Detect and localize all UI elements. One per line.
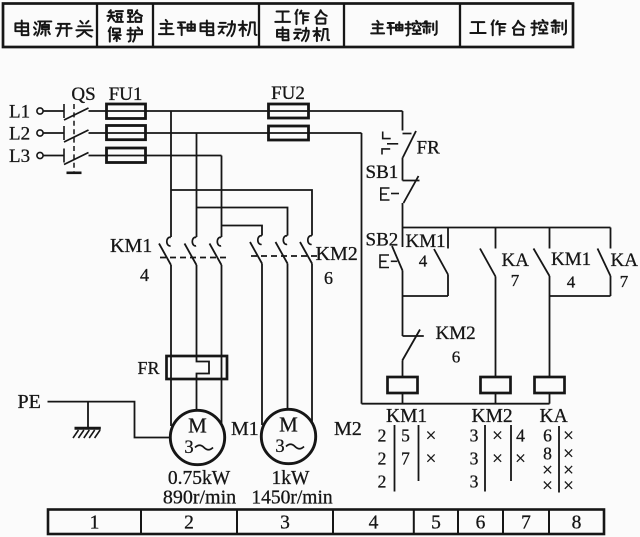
wire phase W drop [221, 156, 223, 238]
KA table column 2 [563, 426, 574, 497]
svg-text:×: × [426, 449, 437, 470]
wire rail to KA contact [495, 228, 497, 249]
svg-text:8: 8 [572, 513, 582, 534]
wire SB2 down [402, 271, 404, 337]
svg-text:M: M [279, 413, 298, 437]
svg-text:2: 2 [184, 513, 194, 534]
wire branch V to KM2 pole 2 [197, 208, 288, 236]
svg-text:2: 2 [378, 449, 387, 469]
header label: spindle motor (zhu-zhou-dian-dong-ji) [159, 20, 257, 36]
svg-text:FU2: FU2 [271, 83, 305, 104]
zone strip divider 6 [502, 510, 504, 535]
contactor KM2 main contact 2 [283, 236, 287, 245]
wire KM1 pole3 to motor M1 [221, 265, 223, 426]
svg-text:7: 7 [620, 272, 629, 291]
svg-text:6: 6 [476, 513, 486, 534]
wire rail to KM1 contact [549, 228, 551, 249]
header divider 1 [96, 4, 98, 48]
KM2 table column 1 [470, 426, 479, 492]
wire KM1 pole2 to motor M1 (through FR heater jog) [197, 265, 210, 410]
svg-text:×: × [542, 476, 553, 497]
svg-text:FR: FR [417, 138, 441, 159]
wire KM2 coil to bottom rail [495, 393, 497, 404]
zone strip divider 4 [413, 510, 415, 535]
wire join to KA coil [549, 296, 551, 377]
svg-text:×: × [563, 476, 574, 497]
svg-text:KM1: KM1 [551, 249, 591, 270]
pushbutton SB2 blade [392, 246, 403, 271]
zone numbers 1-8 [90, 513, 582, 534]
svg-text:×: × [492, 426, 503, 447]
svg-text:1: 1 [90, 513, 100, 534]
zone strip divider 2 [236, 510, 238, 535]
wire control feed drop [402, 111, 404, 131]
contactor KM1 main contact 3 [217, 237, 221, 246]
wire phase U drop [170, 111, 172, 237]
svg-text:QS: QS [71, 84, 95, 105]
wire KA coil to bottom rail [549, 393, 551, 404]
svg-text:4: 4 [419, 252, 428, 271]
svg-text:4: 4 [567, 273, 576, 292]
svg-text:M2: M2 [334, 418, 362, 440]
svg-text:3: 3 [275, 437, 284, 457]
svg-text:KM1: KM1 [406, 231, 446, 252]
terminal L2 circle [37, 130, 43, 136]
thermal relay contact FR trip symbol [382, 132, 391, 155]
header divider 3 [258, 4, 260, 48]
wire L2 bus (QS to return drop) [89, 132, 362, 134]
wire KM1 latch down [447, 275, 449, 297]
header divider 4 [343, 4, 345, 48]
switch QS linkage dashed line [73, 104, 75, 172]
contactor KM2 linkage dashed line [251, 255, 320, 257]
terminal L1 circle [37, 108, 43, 114]
header label: worktable motor (gong-zuo-tai / dian-dong-ji) [275, 10, 329, 41]
svg-text:L1: L1 [9, 102, 30, 123]
thermal relay contact FR seat [403, 133, 412, 135]
wire rail to KA contact 2 [610, 228, 612, 249]
contact KM2 interlock blade [402, 330, 420, 361]
switch QS pole 2 blade [64, 130, 89, 142]
wire branch U to KM2 pole 3 [171, 190, 312, 236]
header divider 5 [459, 4, 461, 48]
wire L1 bus (QS to control drop) [89, 110, 403, 112]
wire control top rail [403, 227, 611, 229]
zone strip divider 3 [332, 510, 334, 535]
wire KM1 contact down [549, 276, 551, 296]
header label: spindle control (zhu-zhou-kong-zhi) [371, 21, 436, 36]
wire KM2 pole3 to motor M2 [311, 264, 313, 426]
wire KA contact 2 down [610, 276, 612, 296]
pushbutton SB2 link dash [391, 260, 398, 262]
KM1 table column: NO aux pins [401, 426, 410, 469]
svg-text:KM1: KM1 [386, 406, 427, 427]
svg-text:PE: PE [18, 391, 41, 413]
pushbutton SB1 link dash [391, 193, 399, 195]
pushbutton SB1 blade [404, 176, 419, 203]
svg-text:6: 6 [452, 348, 461, 367]
KA table bar [558, 426, 560, 493]
wire KM1 pole1 to motor M1 [170, 265, 172, 426]
KA table column 1 [542, 426, 553, 497]
terminal L3 circle [37, 152, 43, 158]
wire branch W to KM2 pole 1 [222, 226, 263, 236]
switch QS pole 1 blade [64, 108, 89, 120]
header label: power switch (dian-yuan-kai-guan) [15, 20, 92, 36]
svg-text:KA: KA [540, 406, 568, 427]
wire L1 terminal to QS [43, 110, 64, 112]
switch QS pole 1 hinge [63, 104, 65, 118]
svg-text:KM2: KM2 [316, 243, 358, 265]
coil KM1 [388, 377, 418, 393]
contact KM2 interlock seat [403, 335, 424, 337]
svg-text:FR: FR [138, 358, 160, 378]
wire SB1 to rail [402, 203, 404, 228]
header label: short-circuit protection (duan-lu / bao-hu) [107, 10, 142, 41]
KM1 table bar 2 [418, 425, 420, 481]
motor M2 tilde [286, 444, 304, 449]
svg-text:KM2: KM2 [472, 406, 513, 427]
ground stem [87, 402, 89, 428]
contactor KM1 main contact 2 [192, 237, 196, 246]
svg-text:3: 3 [184, 438, 193, 458]
KM2 table bar 2 [510, 425, 512, 481]
svg-text:5: 5 [431, 513, 441, 534]
svg-text:M1: M1 [231, 418, 259, 440]
wire rail to KM1 latch [447, 228, 449, 249]
ground hatching [73, 430, 100, 438]
svg-text:1kW: 1kW [272, 468, 311, 489]
wire KM2 interlock to coil [402, 361, 404, 378]
zone strip divider 5 [457, 510, 459, 535]
coil KM2 [481, 377, 511, 393]
ground bar [75, 427, 101, 430]
wire KM2 pole2 to motor M2 [287, 264, 289, 411]
svg-text:3: 3 [470, 426, 479, 446]
contactor KM2 main contact 3 [308, 236, 312, 245]
contactor KM2 main contact 1 [258, 236, 262, 245]
header table frame [3, 4, 573, 48]
wire latch join [403, 295, 449, 297]
switch QS operator bar [67, 172, 82, 175]
svg-text:L2: L2 [9, 124, 30, 145]
svg-text:2: 2 [378, 472, 387, 492]
svg-text:L3: L3 [9, 146, 30, 167]
fuse FU2 element 2 [269, 126, 309, 140]
wire L3 terminal to QS [43, 155, 64, 157]
svg-text:1450r/min: 1450r/min [251, 488, 332, 509]
pushbutton SB1 seat [403, 180, 420, 182]
svg-text:×: × [515, 449, 526, 470]
svg-text:SB1: SB1 [366, 162, 399, 183]
wire KA contact to KM2 coil [495, 277, 497, 378]
wire L2 terminal to QS [43, 132, 64, 134]
fuse FU1 element 3 [107, 148, 146, 163]
zone strip divider 1 [140, 510, 142, 535]
motor M2 circle [261, 409, 315, 463]
pushbutton SB2 actuator [380, 255, 389, 268]
svg-text:4: 4 [369, 513, 379, 534]
svg-text:3: 3 [470, 472, 479, 492]
motor M1 circle [170, 410, 224, 464]
svg-text:7: 7 [521, 513, 531, 534]
coil KA [535, 377, 565, 393]
svg-text:FU1: FU1 [109, 84, 143, 105]
svg-text:2: 2 [378, 426, 387, 446]
KM2 table bar 1 [484, 425, 486, 492]
svg-text:6: 6 [324, 268, 333, 288]
svg-text:890r/min: 890r/min [163, 487, 236, 509]
svg-text:3: 3 [280, 513, 290, 534]
wire KM1 coil to bottom rail [402, 393, 404, 404]
motor M1 tilde [195, 445, 213, 450]
svg-text:6: 6 [543, 426, 552, 446]
thermal relay contact FR blade [403, 131, 416, 158]
contact KA blade 2 [598, 249, 611, 277]
zone strip frame [48, 510, 604, 535]
KM1 table column: main contact counts [378, 426, 387, 492]
svg-text:×: × [426, 426, 437, 447]
svg-text:KA: KA [502, 250, 530, 271]
fuse FU1 element 2 [107, 126, 146, 140]
KM1 table bar 1 [394, 425, 396, 492]
wire control bottom rail [362, 403, 550, 405]
switch QS pole 3 hinge [63, 149, 65, 163]
svg-text:KM2: KM2 [436, 323, 476, 344]
svg-text:M: M [188, 414, 207, 438]
wire L3 bus [89, 155, 222, 157]
wire KA branch join [550, 295, 611, 297]
svg-text:KA: KA [611, 250, 639, 271]
wire FR to SB1 [402, 158, 404, 181]
header label: worktable control (gong-zuo-tai-kong-zhi) [470, 20, 566, 35]
svg-text:4: 4 [140, 265, 149, 285]
zone strip divider 7 [548, 510, 550, 535]
svg-text:7: 7 [511, 271, 520, 290]
wire phase V drop [196, 133, 198, 237]
switch QS pole 3 blade [64, 153, 89, 165]
fuse FU1 element 1 [107, 104, 146, 119]
wire rail to SB2 [402, 228, 404, 248]
KM2 table column 3 [515, 426, 526, 470]
switch QS pole 2 hinge [63, 126, 65, 140]
contact KM1 blade (KA branch) [534, 249, 550, 277]
pushbutton SB1 actuator [381, 188, 390, 200]
svg-text:×: × [492, 449, 503, 470]
svg-text:5: 5 [401, 426, 410, 446]
wire control return drop (L2) [361, 133, 363, 404]
wire KM2 pole1 to motor M2 [261, 264, 263, 426]
contactor KM1 linkage dashed line [160, 257, 229, 259]
svg-text:4: 4 [516, 426, 525, 446]
contactor KM1 main contact 1 [167, 237, 171, 246]
KM1 table column: NC marks [426, 426, 437, 470]
thermal relay FR heater box [167, 356, 228, 379]
fuse FU2 element 1 [269, 104, 309, 118]
svg-text:3: 3 [470, 449, 479, 469]
KM2 table column 2 [492, 426, 503, 470]
svg-text:7: 7 [401, 449, 410, 469]
contact KM1 latch blade [434, 249, 448, 275]
header divider 2 [152, 4, 154, 48]
svg-text:KM1: KM1 [110, 235, 152, 257]
thermal relay contact FR link dash [387, 143, 398, 145]
wire PE to motor M1 [48, 402, 171, 438]
contact KA blade (KM2 branch) [480, 249, 496, 277]
